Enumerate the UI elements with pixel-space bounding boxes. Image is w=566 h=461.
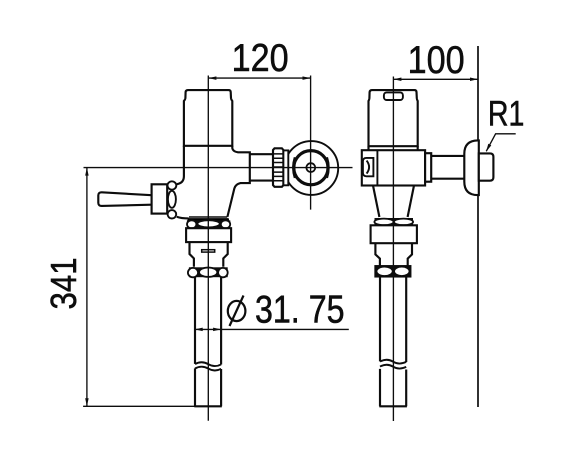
dimension line 120: [208, 77, 310, 79]
front pipe break: [195, 362, 221, 370]
escutcheon: [464, 140, 479, 195]
lever fixing nut: [168, 181, 177, 218]
side outlet flange: [425, 153, 431, 182]
front body bottom line: [189, 216, 227, 218]
svg-text:31. 75: 31. 75: [255, 288, 345, 331]
spud right chord arc: [327, 157, 329, 178]
dimension line phi 31.75: [195, 328, 349, 330]
thread R1: [479, 153, 494, 180]
gasket band: [187, 218, 229, 221]
dimension line 341: [86, 168, 88, 407]
svg-text:341: 341: [43, 257, 84, 309]
spud small circle: [306, 163, 315, 172]
block inner line: [376, 150, 378, 185]
spud collar: [283, 150, 288, 185]
side knurl row 2: [375, 266, 410, 277]
set screw slot: [202, 250, 215, 252]
side knurl row 1: [375, 218, 414, 225]
side adjuster section: [375, 243, 412, 266]
port arc: [367, 161, 370, 174]
lever handle: [98, 192, 151, 206]
side outlet pipe: [431, 156, 466, 179]
cap side stubs: [369, 146, 418, 150]
side vertical centerline: [392, 77, 394, 422]
spud left chord arc: [293, 157, 295, 178]
coupling nut: [186, 228, 231, 242]
coupling knurl row 2: [189, 267, 228, 277]
side supply pipe: [379, 277, 407, 407]
front view body: [177, 146, 184, 184]
side coupling nut: [371, 225, 417, 243]
side body taper: [373, 186, 414, 218]
side view cap: [369, 90, 418, 146]
phi symbol: [228, 301, 246, 321]
spud mid circle: [294, 151, 328, 185]
bottom extension line: [83, 405, 195, 407]
lever boss: [152, 184, 168, 213]
dimension line 100: [393, 78, 478, 80]
coupling knurl row 1: [187, 220, 230, 228]
spud flange outer circle: [284, 141, 338, 195]
outlet knurled nut: [273, 148, 283, 187]
cap button: [384, 92, 403, 100]
side pipe break: [380, 360, 406, 369]
front supply pipe: [194, 278, 222, 407]
svg-text:100: 100: [408, 39, 465, 82]
port cover: [363, 158, 374, 176]
svg-text:120: 120: [232, 37, 289, 80]
adjuster section: [190, 242, 228, 267]
side body block: [362, 150, 425, 185]
R1 leader: [486, 134, 515, 151]
wall line: [477, 46, 479, 407]
svg-text:R1: R1: [488, 95, 525, 134]
front outlet pipe: [250, 154, 273, 180]
front vertical centerline: [207, 76, 209, 421]
front view cap: [184, 90, 232, 146]
front horizontal centerline: [84, 167, 353, 169]
spud vertical centerline: [310, 76, 312, 210]
